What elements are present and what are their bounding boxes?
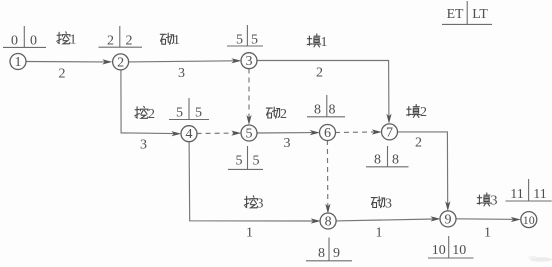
svg-text:0: 0 (30, 34, 37, 49)
svg-text:ET: ET (447, 6, 464, 21)
wire 5-6 (activity 砌2) (257, 130, 320, 135)
activity label 砌2 (266, 107, 287, 122)
svg-text:5: 5 (236, 154, 243, 169)
svg-text:5: 5 (195, 106, 202, 121)
svg-text:8: 8 (318, 246, 325, 261)
node 6 (320, 125, 336, 142)
svg-text:2: 2 (126, 34, 133, 49)
svg-text:5: 5 (176, 106, 183, 121)
svg-text:1: 1 (484, 226, 491, 241)
dashed dummy 6-8, vertical (325, 140, 330, 214)
time label below node 9: 10|10 (428, 236, 474, 258)
wire 7-9 (activity 填2), right then down (397, 132, 450, 211)
svg-text:10: 10 (432, 243, 446, 258)
svg-text:1: 1 (376, 226, 383, 241)
node 2 (113, 54, 129, 71)
svg-text:9: 9 (445, 212, 452, 227)
wire 9-10 (activity 填3) (456, 217, 521, 222)
legend ET|LT (442, 1, 492, 24)
time label above node 1: 0|0 (3, 26, 46, 49)
svg-text:7: 7 (386, 125, 393, 140)
wire 1-2 (activity 挖1) (26, 59, 113, 64)
svg-text:10: 10 (523, 213, 535, 227)
node 10 (521, 212, 537, 228)
time label below node 5: 5|5 (228, 146, 263, 169)
svg-text:2: 2 (148, 107, 155, 122)
node 9 (440, 211, 456, 228)
activity label 砌1 (160, 33, 180, 48)
node 7 (382, 124, 398, 141)
svg-text:1: 1 (70, 33, 77, 48)
time label above node 4: 5|5 (169, 98, 209, 121)
svg-text:11: 11 (533, 187, 546, 202)
wire 3-7 (activity 填1), right then down (257, 61, 392, 124)
dashed dummy 6-7, horizontal (335, 129, 382, 134)
node 3 (241, 53, 257, 69)
activity label 挖3 (244, 196, 263, 212)
activity label 砌3 (371, 196, 392, 211)
svg-text:8: 8 (314, 103, 321, 118)
activity label 挖1 (57, 32, 77, 48)
svg-text:3: 3 (140, 138, 147, 153)
svg-text:3: 3 (284, 136, 291, 151)
time label below node 8: 8|9 (306, 238, 352, 262)
svg-text:1: 1 (246, 226, 253, 241)
svg-text:3: 3 (385, 196, 392, 211)
activity label 挖2 (135, 106, 155, 122)
svg-text:1: 1 (15, 55, 22, 70)
activity label 填2 (407, 104, 427, 120)
svg-text:2: 2 (117, 55, 124, 70)
time label above node 2: 2|2 (99, 26, 143, 49)
svg-text:3: 3 (246, 54, 253, 69)
wire 8-9 (activity 砌3) (336, 216, 441, 221)
svg-text:2: 2 (280, 107, 287, 122)
svg-text:8: 8 (374, 153, 381, 168)
svg-text:11: 11 (510, 187, 523, 202)
svg-text:1: 1 (321, 35, 328, 50)
svg-text:0: 0 (11, 34, 18, 49)
svg-text:5: 5 (251, 33, 258, 48)
node 1 (10, 54, 26, 71)
node 5 (241, 125, 257, 142)
time label above node 6: 8|8 (307, 95, 345, 118)
svg-text:3: 3 (257, 197, 264, 212)
svg-text:6: 6 (324, 126, 331, 141)
wire 2-3 (activity 砌1) (128, 58, 241, 63)
svg-text:8: 8 (325, 215, 332, 230)
svg-text:2: 2 (415, 136, 422, 151)
svg-text:5: 5 (246, 127, 253, 142)
svg-text:8: 8 (392, 153, 399, 168)
wire 2-4 (activity 挖2), down then right (121, 70, 181, 136)
time label below node 7: 8|8 (366, 146, 409, 168)
svg-text:2: 2 (420, 105, 427, 120)
time label above node 10: 11|11 (506, 179, 552, 202)
svg-text:1: 1 (173, 33, 180, 48)
svg-text:5: 5 (253, 154, 260, 169)
activity label 填1 (307, 34, 327, 50)
svg-text:2: 2 (107, 34, 114, 49)
faint scan smudge bottom-right (528, 256, 552, 262)
svg-text:4: 4 (186, 127, 193, 142)
svg-text:5: 5 (236, 33, 243, 48)
node 4 (181, 126, 197, 143)
activity label 填3 (477, 193, 497, 209)
svg-text:10: 10 (452, 243, 466, 258)
wire 4-8 (activity 挖3), down then right (189, 141, 321, 223)
svg-text:2: 2 (316, 66, 323, 81)
svg-text:9: 9 (333, 246, 340, 261)
svg-text:3: 3 (491, 194, 498, 209)
svg-text:2: 2 (59, 67, 66, 82)
time label above node 3: 5|5 (227, 25, 263, 48)
dashed dummy 4-5, horizontal (197, 131, 242, 136)
svg-text:3: 3 (178, 66, 185, 81)
svg-text:LT: LT (472, 6, 488, 21)
dashed dummy 3-5, vertical (246, 69, 251, 126)
svg-text:8: 8 (329, 103, 336, 118)
node 8 (320, 213, 336, 230)
